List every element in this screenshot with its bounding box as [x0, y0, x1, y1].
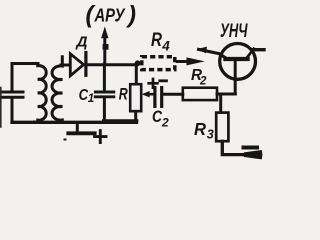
svg-text:Д: Д	[74, 35, 88, 51]
svg-text:R: R	[119, 86, 128, 104]
svg-text:4: 4	[161, 39, 170, 54]
svg-text:2: 2	[199, 76, 207, 88]
svg-text:3: 3	[207, 128, 214, 142]
svg-text:2: 2	[161, 116, 169, 130]
svg-text:1: 1	[88, 93, 94, 105]
svg-text:АРУ: АРУ	[94, 6, 126, 26]
svg-text:УНЧ: УНЧ	[220, 20, 248, 42]
svg-text:R: R	[194, 119, 206, 139]
svg-text:R: R	[151, 30, 162, 51]
